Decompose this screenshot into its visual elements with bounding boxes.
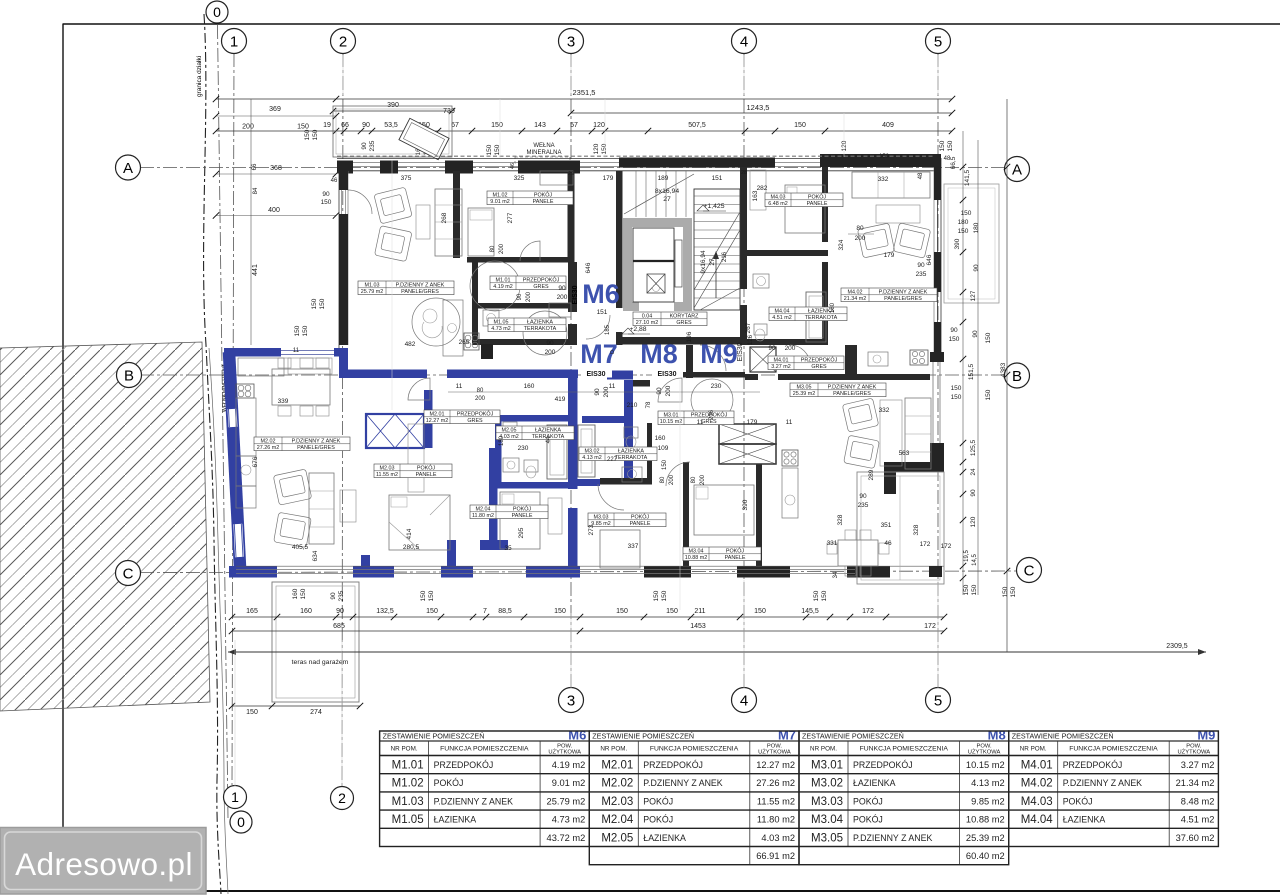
svg-text:273: 273 [588,524,595,535]
svg-text:150: 150 [311,298,318,309]
wall M4.03 | M4.04 horizontal [747,250,828,256]
svg-text:27: 27 [663,196,671,203]
svg-text:4.73 m2: 4.73 m2 [491,326,510,332]
svg-text:M1.01: M1.01 [496,277,511,283]
svg-text:150: 150 [601,143,608,154]
svg-text:3.27 m2: 3.27 m2 [1181,760,1215,770]
svg-text:M7: M7 [778,728,796,743]
svg-text:150: 150 [666,608,678,615]
room schedule table M8 [799,728,1009,865]
svg-text:P.DZIENNY Z ANEK: P.DZIENNY Z ANEK [434,796,513,806]
svg-text:27: 27 [709,258,716,266]
svg-text:390: 390 [742,499,749,510]
svg-text:277: 277 [507,212,514,223]
svg-text:160: 160 [655,435,666,442]
M3.02 bottom wall black [600,478,652,485]
M9 armchairs [857,223,894,258]
svg-text:1: 1 [230,33,238,50]
svg-text:P.DZIENNY Z ANEK: P.DZIENNY Z ANEK [879,289,928,295]
svg-text:351: 351 [881,522,892,529]
east exterior wall M9 [937,154,939,359]
svg-text:34: 34 [833,571,839,578]
room label M1.03 P.DZIENNY Z ANEK [358,281,454,295]
M3.05 coffee table [880,400,902,466]
svg-text:KORYTARZ: KORYTARZ [670,313,700,319]
svg-text:150: 150 [294,325,301,336]
grid axis 4 vertical line [743,53,745,688]
svg-text:646: 646 [926,254,933,265]
svg-text:150: 150 [319,298,326,309]
M3.05 sofa [905,398,931,469]
svg-text:150: 150 [297,124,309,131]
svg-text:90: 90 [950,327,958,334]
svg-text:179: 179 [884,252,895,259]
svg-text:Adresowo.pl: Adresowo.pl [15,846,193,882]
elevator cabin outline [633,228,674,302]
M9 hall east wall x845 [845,345,851,375]
bay terrace outline [857,472,944,584]
svg-text:265: 265 [459,339,470,346]
svg-text:28: 28 [741,170,747,176]
M9 south kitchen strip walls [851,345,857,375]
svg-text:0: 0 [213,4,221,20]
grid bubble 4 at (744,700) [732,688,757,713]
M8 kitchen stove [782,450,798,466]
M6 west door arc [348,190,372,214]
room label M4.04 LAZIENKA [769,307,847,321]
svg-text:ŁAZIENKA: ŁAZIENKA [527,319,553,325]
svg-text:150: 150 [985,332,992,343]
svg-text:150: 150 [949,336,960,343]
svg-text:P.DZIENNY Z ANEK: P.DZIENNY Z ANEK [853,833,932,843]
svg-text:M2.02: M2.02 [261,438,276,444]
svg-text:405,5: 405,5 [292,544,309,551]
svg-text:165: 165 [246,608,258,615]
svg-text:375: 375 [401,175,412,182]
svg-text:120: 120 [593,143,600,154]
svg-text:189: 189 [658,175,669,182]
svg-text:PRZEDPOKÓJ: PRZEDPOKÓJ [523,276,560,283]
witness lines light grey [342,55,344,95]
svg-text:POKÓJ: POKÓJ [534,191,553,198]
svg-text:109: 109 [658,445,669,452]
svg-text:11: 11 [456,383,463,390]
svg-text:230: 230 [711,383,722,390]
svg-text:368: 368 [270,165,282,172]
room schedule table M6 [380,728,590,847]
svg-text:160: 160 [300,608,312,615]
svg-text:150: 150 [616,608,628,615]
room label M2.03 POKOJ [374,464,452,478]
svg-text:WEŁNA: WEŁNA [533,143,554,149]
svg-text:200: 200 [665,385,672,396]
svg-text:M8: M8 [988,728,1006,743]
room label M1.02 POKOJ [487,191,573,205]
M3.03 door arc [598,484,624,510]
svg-text:90: 90 [330,592,337,600]
wall M6 bath bottom [478,339,573,345]
svg-text:POKÓJ: POKÓJ [1063,796,1093,806]
svg-text:282: 282 [757,185,768,192]
bottom dim chain row 1 [232,616,944,618]
grid bubble 5 at (938,41) [926,29,951,54]
grid bubble 3 at (571,700) [559,688,584,713]
svg-text:POKÓJ: POKÓJ [853,796,883,806]
stair arrow [715,252,717,298]
svg-text:11.80 m2: 11.80 m2 [472,513,494,519]
M8 kitchen counter [782,468,798,518]
svg-text:150: 150 [971,584,978,595]
M2.05 washer [503,422,517,436]
svg-text:10.88 m2: 10.88 m2 [966,815,1005,825]
grid axis 3 vertical line [570,53,572,688]
svg-text:PRZEDPOKÓJ: PRZEDPOKÓJ [1063,760,1123,770]
north wall solid segment M9 (raised) [820,154,941,167]
svg-text:ZESTAWIENIE POMIESZCZEŃ: ZESTAWIENIE POMIESZCZEŃ [802,732,904,741]
svg-text:POKÓJ: POKÓJ [434,778,464,788]
svg-text:125,5: 125,5 [970,439,977,456]
svg-text:150: 150 [947,140,954,151]
M4.04 bath bottom wall [747,339,828,345]
svg-text:M4.03: M4.03 [1021,796,1053,808]
bay window walls bottom right [930,352,944,362]
svg-text:180: 180 [830,302,836,313]
svg-text:200: 200 [669,474,675,485]
svg-text:150: 150 [661,590,668,601]
elevator shaft walls (grey) [623,218,692,311]
svg-text:M4.01: M4.01 [1021,760,1053,772]
svg-text:400: 400 [268,207,280,214]
svg-text:200: 200 [526,291,532,302]
M3.04 bed [694,485,754,535]
svg-text:66: 66 [252,163,258,170]
M8 wall x683 (hall | M3.04) [683,462,689,575]
blue wall M7|M8 vertical x568 [568,377,578,489]
svg-text:25.79 m2: 25.79 m2 [361,289,383,295]
svg-text:EIS30: EIS30 [657,371,676,378]
svg-text:ŁAZIENKA: ŁAZIENKA [434,815,477,825]
M8 wall x778 (M3.04 | living) [756,464,762,575]
svg-text:150: 150 [963,584,970,595]
svg-text:150: 150 [312,129,319,140]
svg-text:ŁAZIENKA: ŁAZIENKA [535,427,561,433]
svg-text:10.15 m2: 10.15 m2 [660,419,682,425]
elevator X box [647,274,665,293]
M4.03 bed [785,185,825,233]
M7 living armchairs [273,469,312,505]
svg-text:90: 90 [970,489,977,497]
svg-text:66: 66 [341,122,349,129]
svg-text:150: 150 [662,459,668,470]
svg-text:66,5: 66,5 [950,156,957,169]
svg-text:21.34 m2: 21.34 m2 [844,296,866,302]
svg-text:M3.03: M3.03 [811,796,843,808]
M3.04 door arc [666,462,690,486]
svg-text:25.39 m2: 25.39 m2 [966,833,1005,843]
grid axis B horizontal line [140,374,1004,376]
sheet frame top border [63,23,1280,25]
svg-text:PANELE: PANELE [807,201,828,207]
svg-text:ŁAZIENKA: ŁAZIENKA [618,448,644,454]
svg-text:M6: M6 [568,728,586,743]
svg-text:328: 328 [913,524,920,535]
svg-text:P.DZIENNY Z ANEK: P.DZIENNY Z ANEK [643,778,722,788]
svg-text:150: 150 [300,588,307,599]
blue wall M2.03 | M2.04 divider x489 [489,448,498,545]
svg-text:M1.03: M1.03 [392,796,424,808]
svg-text:M2.03: M2.03 [380,465,395,471]
svg-text:120: 120 [841,140,848,151]
fire label EIS30 at M7 door [581,369,612,378]
wall M6 hall east x569 [568,262,577,312]
svg-text:482: 482 [405,341,416,348]
svg-text:145,5: 145,5 [801,608,819,615]
svg-text:646: 646 [585,262,592,273]
svg-text:MINERALNA: MINERALNA [526,150,561,156]
M7 kitchen stove west wall [236,384,254,398]
svg-text:90: 90 [972,330,979,338]
svg-text:M3.05: M3.05 [797,384,812,390]
svg-text:172: 172 [862,608,874,615]
svg-text:UŻYTKOWA: UŻYTKOWA [548,749,581,756]
svg-text:90: 90 [336,608,344,615]
svg-text:150: 150 [1010,586,1017,597]
svg-text:PANELE/GRES: PANELE/GRES [297,445,335,451]
M8 turning circle hall [691,379,733,421]
blue wall kitchen window top (thin) [281,350,334,352]
svg-text:M4.02: M4.02 [848,289,863,295]
svg-text:9x16,94: 9x16,94 [700,250,707,274]
svg-text:FUNKCJA POMIESZCZENIA: FUNKCJA POMIESZCZENIA [1069,745,1158,752]
svg-text:331: 331 [827,540,838,547]
svg-text:48: 48 [944,156,951,162]
svg-text:24: 24 [970,468,977,476]
svg-text:44: 44 [546,436,552,443]
svg-text:M1.05: M1.05 [494,319,509,325]
svg-text:7: 7 [483,608,487,615]
grid bubble C at (128,573) [116,561,141,586]
svg-text:M2.04: M2.04 [601,814,634,826]
blue bathroom right top piece [582,416,633,423]
svg-text:PANELE: PANELE [416,472,437,478]
M8 wardrobe X boxes [719,424,776,444]
svg-text:1453: 1453 [690,623,706,630]
M4.01 wardrobe X [750,347,776,372]
blue bathroom M2.05 walls [495,415,577,422]
blue wall M7 south piers [229,566,277,578]
svg-text:332: 332 [878,176,889,183]
M9 living sofa top [852,172,930,198]
blue wall B axis main horizontal [348,370,427,379]
room schedule table M9 [1009,728,1219,847]
M4.04 toilet [754,324,767,335]
svg-text:48: 48 [918,172,924,179]
blue wall wardrobe M2.02/M2.03 [366,414,424,448]
svg-text:200: 200 [855,235,866,242]
svg-text:200: 200 [475,396,486,402]
svg-text:M2.04: M2.04 [476,506,491,512]
svg-text:A: A [1012,161,1022,178]
grid bubble 3 at (571,41) [559,29,584,54]
svg-text:ZESTAWIENIE POMIESZCZEŃ: ZESTAWIENIE POMIESZCZEŃ [1012,732,1114,741]
svg-text:2: 2 [338,790,346,806]
svg-text:UŻYTKOWA: UŻYTKOWA [968,749,1001,756]
watermark Adresowo.pl box [0,828,206,895]
svg-text:FUNKCJA POMIESZCZENIA: FUNKCJA POMIESZCZENIA [860,745,949,752]
svg-text:150: 150 [302,325,309,336]
svg-text:4.73 m2: 4.73 m2 [552,815,586,825]
M6 door arc entry [586,315,610,339]
svg-text:NR POM.: NR POM. [600,745,627,752]
svg-text:88,5: 88,5 [498,608,512,615]
svg-text:150: 150 [491,122,503,129]
wall M8|M9 hall separator [686,345,693,378]
M1.02 bed [468,208,494,256]
room label M1.01 PRZEDPOKOJ [490,276,566,290]
svg-text:M8: M8 [640,339,678,369]
svg-text:GRES: GRES [811,364,827,370]
svg-text:268: 268 [441,212,448,223]
svg-text:325: 325 [514,175,525,182]
svg-text:11: 11 [697,419,704,426]
svg-text:PANELE/GRES: PANELE/GRES [833,391,871,397]
room label M1.05 LAZIENKA [488,318,566,332]
svg-text:200: 200 [700,474,706,485]
svg-text:3: 3 [567,692,575,709]
svg-text:14,5: 14,5 [972,554,978,566]
svg-text:5: 5 [934,692,942,709]
svg-text:60.40 m2: 60.40 m2 [966,851,1005,861]
svg-text:11.55 m2: 11.55 m2 [376,472,398,478]
svg-text:339: 339 [278,398,289,405]
wall M4.03/M4.04 | M4.02 vertical x822 [822,167,828,242]
svg-text:PRZEDPOKÓJ: PRZEDPOKÓJ [434,760,494,770]
M4.03 wardrobe [750,170,766,210]
svg-text:2309,5: 2309,5 [1166,643,1188,650]
svg-text:143: 143 [534,122,546,129]
svg-text:M4.02: M4.02 [1021,778,1053,790]
svg-text:EIS30: EIS30 [586,371,605,378]
upper stair flight treads above elevator [636,171,686,217]
grid axis 0 vertical line [218,25,229,818]
svg-text:332: 332 [879,407,890,414]
svg-text:ŁAZIENKA: ŁAZIENKA [1063,815,1106,825]
svg-text:200: 200 [242,124,254,131]
svg-text:M3.03: M3.03 [594,514,609,520]
svg-text:4.51 m2: 4.51 m2 [1181,815,1215,825]
M3.02 washbasin toilet [624,427,638,438]
svg-text:27.26 m2: 27.26 m2 [257,445,279,451]
svg-text:216: 216 [722,251,728,262]
svg-text:POKÓJ: POKÓJ [853,815,883,825]
grid axis 2 vertical line [342,53,343,786]
svg-text:PANELE: PANELE [533,199,554,205]
grid axis 5 vertical line [937,53,939,688]
right dim chain lines [962,131,964,595]
svg-text:29: 29 [568,171,574,177]
grid bubble 2 at (342,798) [331,787,354,810]
svg-text:90: 90 [594,388,601,396]
svg-text:4: 4 [740,33,748,50]
grid bubble A at (128,167.5) [116,155,141,180]
M3.02 bathroom black east wall [647,423,652,478]
svg-text:676: 676 [252,456,259,467]
svg-text:43.72 m2: 43.72 m2 [547,833,586,843]
north exterior wall outer face line [337,157,941,159]
dimension chain top row of part dims [216,130,952,132]
svg-text:90: 90 [322,191,330,198]
svg-text:POKÓJ: POKÓJ [631,513,650,520]
roof overhang outline above north wall [333,106,452,157]
M9 coffee table [876,205,920,223]
M6 kitchen stove by wall [443,300,463,356]
svg-text:90: 90 [917,262,925,269]
svg-text:M2.02: M2.02 [601,778,633,790]
svg-text:200: 200 [545,349,556,356]
svg-text:4383: 4383 [1000,362,1007,377]
svg-text:196: 196 [686,331,693,342]
M6 bath fixtures [523,311,567,355]
svg-text:80: 80 [856,225,864,232]
blue wall west exterior of M7 (slanted) [229,352,240,567]
M2.05 washbasin and toilet [503,458,519,472]
blue wall M7 north-west top segment [224,348,281,357]
svg-text:180: 180 [973,222,980,233]
svg-text:206: 206 [709,409,715,420]
M4.04 bath tub [806,292,826,342]
svg-text:172: 172 [941,543,952,550]
bottom dim chain row 2 [232,630,944,632]
svg-text:120: 120 [970,516,977,527]
west exterior wall M6 upper [338,171,340,348]
grid bubble 1 at (234,41) [222,29,247,54]
svg-text:11.55 m2: 11.55 m2 [757,796,795,806]
svg-text:M2.03: M2.03 [601,796,633,808]
svg-text:FUNKCJA POMIESZCZENIA: FUNKCJA POMIESZCZENIA [440,745,529,752]
grid axis C horizontal line [140,571,1016,573]
svg-text:200: 200 [557,294,568,301]
svg-text:19,5: 19,5 [964,550,970,562]
svg-text:P.DZIENNY Z ANEK: P.DZIENNY Z ANEK [396,282,445,288]
svg-text:227: 227 [607,457,618,463]
sheet frame left border [62,24,64,828]
svg-text:150: 150 [246,709,258,716]
svg-text:200: 200 [603,386,610,397]
svg-text:3.27 m2: 3.27 m2 [771,364,790,370]
M6 living sofa [435,189,462,256]
svg-text:27.26 m2: 27.26 m2 [756,778,795,788]
svg-text:M9: M9 [1197,728,1215,743]
svg-text:324: 324 [838,239,845,250]
north wall insulation dashed line [337,155,941,157]
svg-text:EIS30: EIS30 [737,342,744,361]
east balcony outline [944,184,999,303]
svg-text:M3.04: M3.04 [811,814,844,826]
wall M1.02 | corridor x567 [568,171,575,262]
svg-text:M9: M9 [700,339,738,369]
svg-text:B: B [1012,368,1022,385]
svg-text:267: 267 [745,322,752,333]
svg-text:150: 150 [794,122,806,129]
grid bubble 0 at (217,12) [206,1,228,23]
svg-text:419: 419 [555,396,566,403]
svg-text:295: 295 [518,527,525,538]
svg-text:132,5: 132,5 [376,608,394,615]
grid bubble A at (1017,169) [1005,157,1030,182]
grid bubble C at (1029,570) [1017,558,1042,583]
svg-text:M4.01: M4.01 [774,357,789,363]
svg-text:C: C [123,565,134,582]
